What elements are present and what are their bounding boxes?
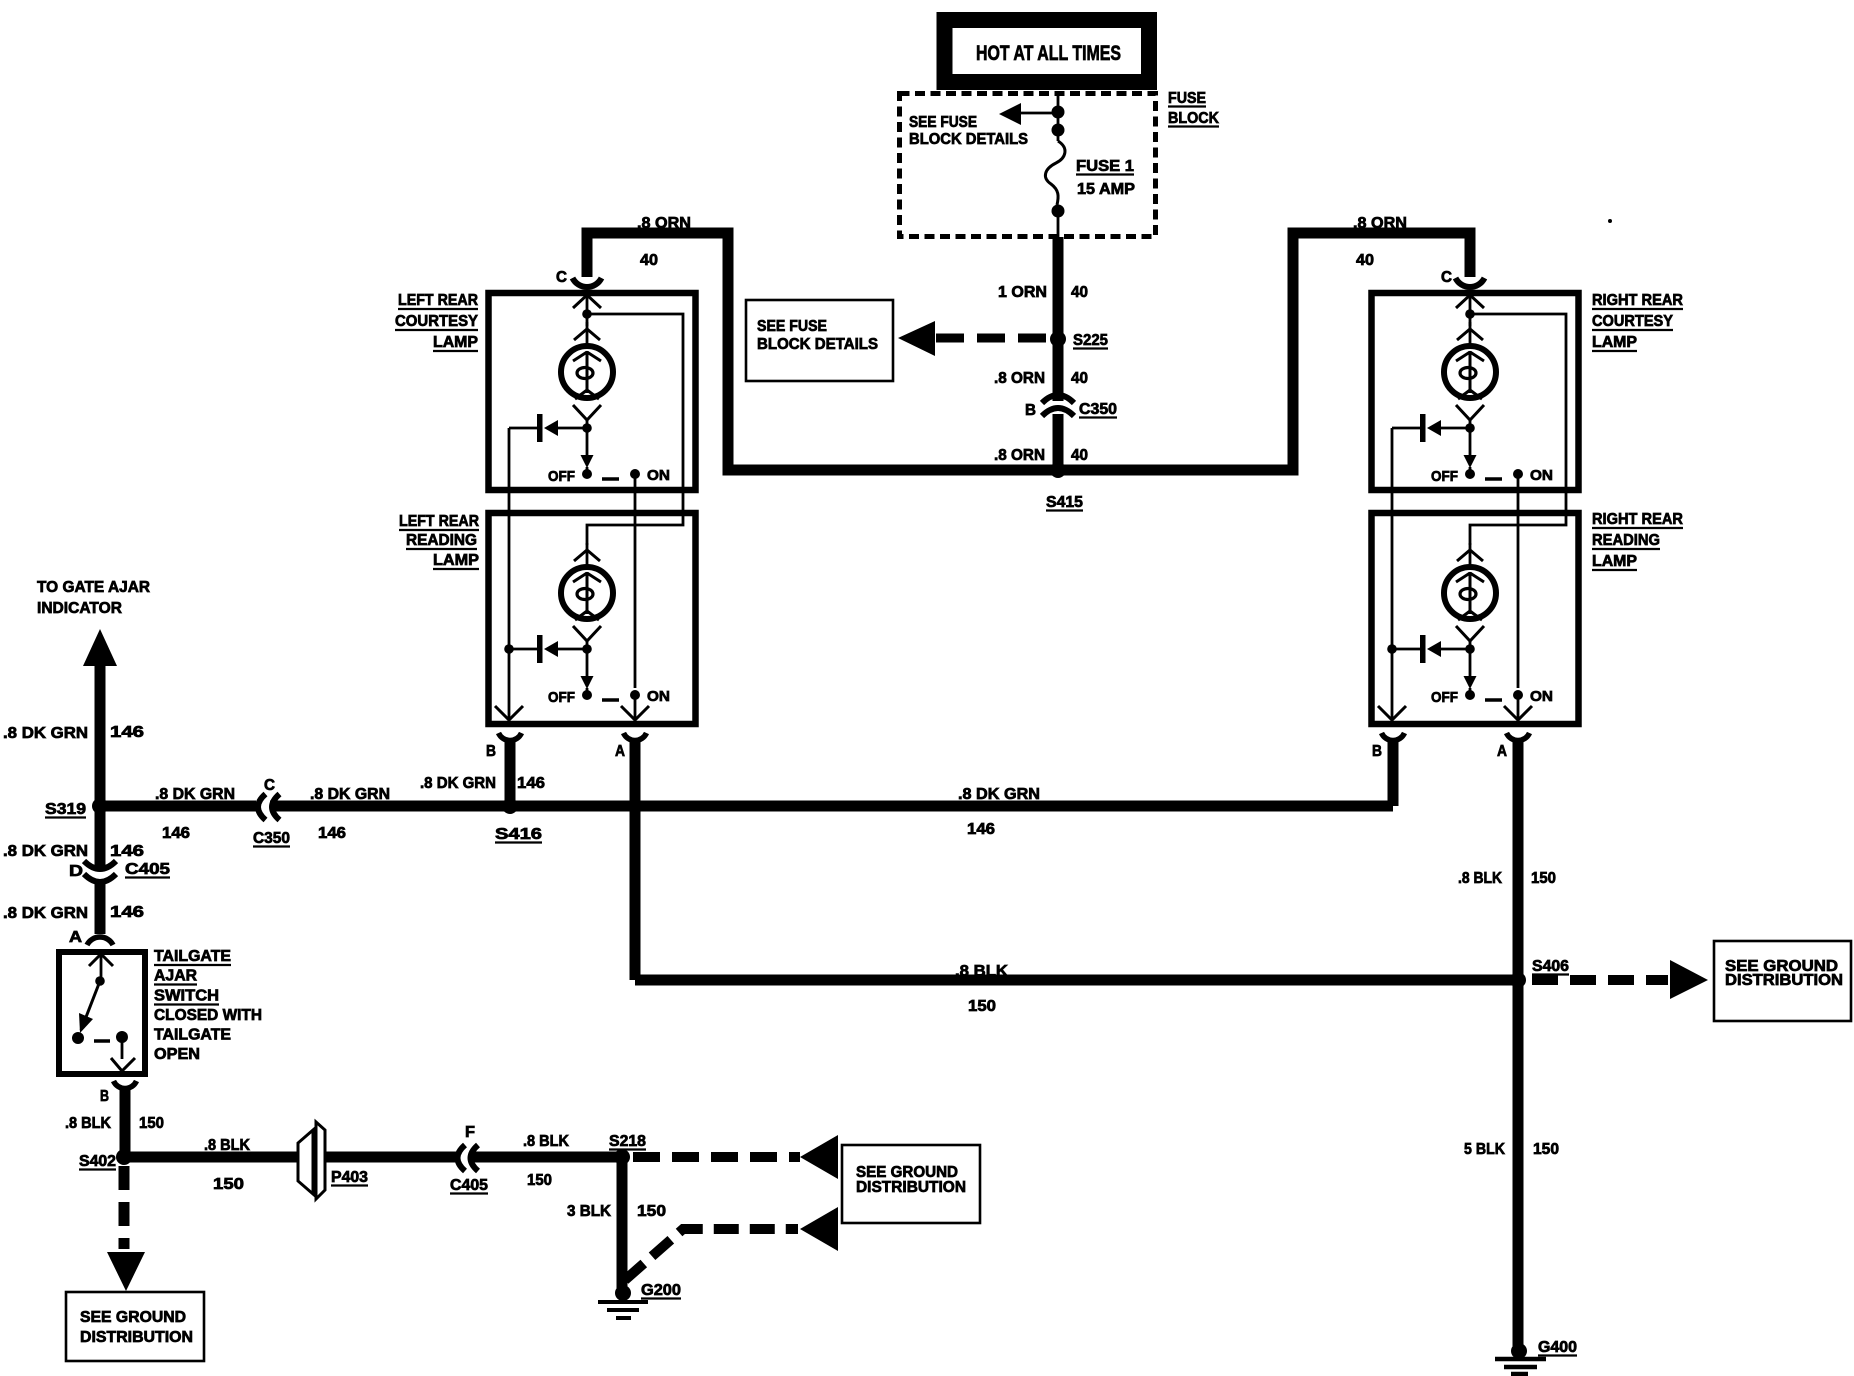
svg-text:COURTESY: COURTESY (395, 313, 478, 330)
svg-text:146: 146 (162, 825, 190, 842)
svg-text:D: D (69, 863, 83, 880)
switch position labels (548, 467, 670, 485)
svg-text:40: 40 (1071, 284, 1088, 301)
courtesy lamp case (1372, 293, 1579, 490)
connector pin A below reading lamp (624, 733, 647, 740)
connector pin B below reading lamp (1382, 733, 1405, 740)
svg-text:COURTESY: COURTESY (1592, 313, 1673, 330)
connector C350 cavity B (inline, vertical) (1042, 395, 1074, 403)
svg-text:SEE FUSE: SEE FUSE (909, 114, 977, 131)
node in courtesy lamp (582, 309, 592, 319)
tailgate switch pin arrow (89, 954, 113, 966)
svg-text:S402: S402 (79, 1153, 116, 1170)
svg-text:S415: S415 (1046, 494, 1083, 511)
svg-text:146: 146 (110, 904, 144, 921)
svg-text:150: 150 (1533, 1141, 1559, 1158)
svg-text:TAILGATE: TAILGATE (154, 948, 231, 965)
connector C at courtesy lamp (573, 278, 602, 287)
node in courtesy lamp (1465, 309, 1475, 319)
wire: A pin down to black run (630, 741, 641, 980)
tailgate switch blade (81, 981, 100, 1030)
svg-text:ON: ON (1530, 467, 1553, 484)
courtesy lamp case (489, 293, 696, 490)
svg-text:150: 150 (527, 1172, 552, 1189)
svg-text:.8 DK GRN: .8 DK GRN (310, 786, 390, 803)
wire diode return (1391, 428, 1394, 720)
wire: right A pin down to G400 (1513, 741, 1524, 1346)
wire OFF/ON to reading lamp (1517, 478, 1520, 688)
right courtesy + reading lamp assembly (1372, 278, 1579, 740)
svg-text:LAMP: LAMP (1592, 553, 1637, 570)
svg-text:.8 DK GRN: .8 DK GRN (3, 843, 88, 860)
wire: .8 ORN to left courtesy lamp (587, 233, 1058, 470)
arrow up to gate ajar indicator (83, 629, 117, 666)
arrow to see ground distribution (right) (1670, 960, 1708, 999)
wire branch to reading lamp (1470, 314, 1566, 545)
wire OFF/ON to reading lamp (634, 478, 637, 688)
svg-text:READING: READING (406, 532, 477, 549)
svg-text:INDICATOR: INDICATOR (37, 600, 122, 617)
svg-text:A: A (69, 929, 82, 946)
tailgate switch pivot node (95, 976, 105, 986)
wire: right B pin to green run end (1388, 741, 1399, 806)
svg-text:P403: P403 (331, 1169, 368, 1186)
svg-text:146: 146 (110, 724, 144, 741)
dashed wire S402 to ground distribution (119, 1166, 130, 1249)
svg-text:OFF: OFF (548, 689, 575, 706)
wire: .8 BLK 150 horizontal run (635, 975, 1518, 986)
svg-text:.8 ORN: .8 ORN (1353, 215, 1407, 232)
wire: 1 ORN 40 vertical feed (1053, 237, 1064, 401)
svg-text:C405: C405 (125, 861, 170, 878)
svg-text:RIGHT REAR: RIGHT REAR (1592, 511, 1683, 528)
svg-text:ON: ON (1530, 688, 1553, 705)
wire: 3 BLK 150 S218 to G200 (617, 1157, 628, 1288)
svg-text:C350: C350 (1079, 401, 1117, 418)
wire: B pin to S416 (505, 741, 516, 806)
svg-text:BLOCK DETAILS: BLOCK DETAILS (757, 336, 878, 353)
svg-text:HOT AT ALL TIMES: HOT AT ALL TIMES (976, 42, 1121, 65)
svg-text:C: C (264, 777, 275, 794)
svg-text:150: 150 (139, 1115, 164, 1132)
courtesy bulb and switch (509, 322, 640, 479)
svg-text:B: B (100, 1088, 109, 1105)
svg-text:.8 DK GRN: .8 DK GRN (3, 905, 88, 922)
svg-text:C: C (556, 269, 567, 286)
svg-text:SEE GROUND: SEE GROUND (80, 1309, 186, 1326)
svg-text:FUSE 1: FUSE 1 (1076, 158, 1134, 175)
fuse block dashed box (900, 94, 1156, 237)
svg-text:146: 146 (318, 825, 346, 842)
courtesy lamp feed pin arrow (573, 295, 601, 308)
dashed wire S406 to ground distribution (1532, 975, 1668, 985)
connector C405 cavity F (inline, horizontal) (458, 1145, 466, 1171)
wire: S319 down to C405 (95, 806, 106, 871)
tailgate ajar switch box (59, 952, 145, 1074)
svg-text:FUSE: FUSE (1168, 90, 1206, 107)
svg-text:C405: C405 (450, 1177, 488, 1194)
svg-text:TAILGATE: TAILGATE (154, 1027, 231, 1044)
svg-text:.8 BLK: .8 BLK (955, 963, 1008, 980)
svg-text:40: 40 (1071, 370, 1088, 387)
svg-text:G200: G200 (641, 1282, 681, 1299)
see ground distribution box (left) (66, 1292, 204, 1361)
splice S415 (1050, 462, 1066, 478)
svg-text:C: C (1441, 269, 1452, 286)
svg-text:150: 150 (1531, 870, 1556, 887)
node diode return reading (1387, 644, 1397, 654)
svg-text:150: 150 (637, 1203, 666, 1220)
svg-text:LAMP: LAMP (1592, 334, 1637, 351)
svg-text:1 ORN: 1 ORN (998, 284, 1047, 301)
svg-text:150: 150 (968, 998, 996, 1015)
svg-text:LAMP: LAMP (433, 552, 479, 569)
connector pin B below reading lamp (499, 733, 522, 740)
svg-text:146: 146 (110, 843, 144, 860)
courtesy bulb and switch (1392, 322, 1523, 479)
left courtesy + reading lamp assembly (489, 278, 696, 740)
svg-text:A: A (615, 743, 625, 760)
courtesy lamp feed pin arrow (1456, 295, 1484, 308)
wire: .8 BLK 150 to S402 (120, 1089, 131, 1152)
see fuse block details box (746, 300, 893, 381)
svg-text:AJAR: AJAR (154, 968, 197, 985)
node: feed junction dots (1052, 106, 1065, 119)
svg-text:CLOSED WITH: CLOSED WITH (154, 1007, 262, 1024)
svg-text:C350: C350 (253, 830, 290, 847)
svg-text:40: 40 (1071, 447, 1088, 464)
connector C at courtesy lamp (1456, 278, 1485, 287)
arrow to see ground distribution (lower) (800, 1207, 838, 1251)
grommet P403 (298, 1130, 313, 1194)
svg-text:.8 DK GRN: .8 DK GRN (3, 725, 88, 742)
svg-text:.8 ORN: .8 ORN (994, 370, 1045, 387)
svg-text:40: 40 (1356, 252, 1374, 269)
arrow down to see ground distribution (107, 1252, 145, 1291)
svg-text:DISTRIBUTION: DISTRIBUTION (80, 1329, 193, 1346)
svg-text:.8 ORN: .8 ORN (994, 447, 1045, 464)
speck (1608, 219, 1612, 223)
svg-text:S319: S319 (45, 801, 86, 818)
reading lamp case (489, 513, 696, 724)
connector C350 cavity C (inline, horizontal) (258, 794, 266, 820)
svg-text:.8 ORN: .8 ORN (637, 215, 691, 232)
svg-text:LAMP: LAMP (433, 334, 478, 351)
svg-text:S218: S218 (609, 1133, 646, 1150)
splice S225 (1050, 331, 1066, 347)
svg-text:3 BLK: 3 BLK (567, 1203, 611, 1220)
svg-text:40: 40 (640, 252, 658, 269)
pin arrows at reading lamp bottom (1378, 706, 1406, 720)
dashed wire to see fuse block details (936, 334, 1046, 343)
svg-text:B: B (486, 743, 496, 760)
wire in fuse block (1057, 96, 1060, 141)
switch position labels (1431, 467, 1553, 485)
svg-text:S225: S225 (1073, 332, 1108, 349)
tailgate switch contact (94, 1039, 110, 1043)
svg-text:SEE FUSE: SEE FUSE (757, 318, 827, 335)
ground G400 (1511, 1343, 1527, 1359)
reading bulb and switch (1392, 543, 1523, 700)
svg-text:15 AMP: 15 AMP (1077, 181, 1135, 198)
svg-text:B: B (1372, 743, 1382, 760)
see ground distribution box (middle) (842, 1145, 980, 1223)
power feed box HOT AT ALL TIMES (945, 20, 1150, 82)
svg-text:.8 BLK: .8 BLK (65, 1115, 111, 1132)
svg-text:ON: ON (647, 688, 670, 705)
wire: .8 DK GRN 146 up from S319 (95, 660, 106, 806)
svg-text:LEFT REAR: LEFT REAR (398, 292, 478, 309)
svg-text:150: 150 (213, 1176, 244, 1193)
arrow to see fuse block details box (898, 321, 935, 356)
switch position labels (548, 688, 670, 706)
wire branch to reading lamp (587, 314, 683, 545)
splice S319 (92, 798, 108, 814)
node diode return reading (504, 644, 514, 654)
svg-text:G400: G400 (1538, 1339, 1577, 1356)
wire: C405 to tailgate switch (95, 884, 106, 934)
svg-text:DISTRIBUTION: DISTRIBUTION (856, 1179, 966, 1196)
wire: .8 DK GRN 146 horizontal run (100, 801, 256, 812)
svg-text:BLOCK: BLOCK (1168, 110, 1219, 127)
svg-text:146: 146 (967, 821, 995, 838)
splice S416 (502, 798, 518, 814)
wire diode return (508, 428, 511, 720)
switch position labels (1431, 688, 1553, 706)
svg-text:F: F (465, 1124, 475, 1141)
node below fuse (1052, 205, 1065, 218)
splice S402 (116, 1149, 132, 1165)
svg-text:SWITCH: SWITCH (154, 988, 219, 1005)
reading lamp case (1372, 513, 1579, 724)
ground G200 (615, 1285, 631, 1301)
svg-text:5 BLK: 5 BLK (1464, 1141, 1505, 1158)
fuse F1 element (1045, 141, 1065, 205)
svg-text:.8 DK GRN: .8 DK GRN (155, 786, 235, 803)
svg-text:LEFT REAR: LEFT REAR (399, 513, 479, 530)
svg-text:OFF: OFF (548, 468, 575, 485)
svg-text:OFF: OFF (1431, 468, 1458, 485)
splice S406 (1510, 972, 1526, 988)
splice S218 (614, 1149, 630, 1165)
svg-text:OFF: OFF (1431, 689, 1458, 706)
wire: .8 ORN to right courtesy lamp (1058, 233, 1470, 470)
svg-text:READING: READING (1592, 532, 1660, 549)
svg-text:S406: S406 (1532, 958, 1569, 975)
wire: .8 BLK 150 S402 to S218 (124, 1152, 297, 1163)
svg-text:.8 BLK: .8 BLK (204, 1137, 250, 1154)
reading bulb and switch (509, 543, 640, 700)
pin arrows at reading lamp bottom (495, 706, 523, 720)
svg-text:ON: ON (647, 467, 670, 484)
svg-text:.8 BLK: .8 BLK (1458, 870, 1502, 887)
svg-text:TO GATE AJAR: TO GATE AJAR (37, 579, 150, 596)
svg-text:.8 DK GRN: .8 DK GRN (958, 786, 1040, 803)
connector pin A below reading lamp (1507, 733, 1530, 740)
svg-text:B: B (1025, 402, 1036, 419)
arrow to see ground distribution (upper) (800, 1135, 838, 1179)
svg-text:RIGHT REAR: RIGHT REAR (1592, 292, 1683, 309)
arrow to fuse block details (top) (999, 103, 1021, 125)
svg-text:DISTRIBUTION: DISTRIBUTION (1725, 972, 1843, 989)
svg-text:.8 BLK: .8 BLK (523, 1133, 569, 1150)
svg-text:OPEN: OPEN (154, 1046, 200, 1063)
dashed wire S218 to ground distribution (633, 1152, 800, 1162)
svg-text:A: A (1497, 743, 1507, 760)
see ground distribution box (right) (1714, 941, 1851, 1021)
svg-text:BLOCK DETAILS: BLOCK DETAILS (909, 131, 1028, 148)
svg-text:S416: S416 (495, 826, 542, 843)
svg-text:.8 DK GRN: .8 DK GRN (420, 775, 496, 792)
svg-text:146: 146 (517, 775, 545, 792)
connector C405 cavity D (inline, vertical) (84, 861, 116, 869)
dashed wire G200 branch to ground distribution (625, 1229, 798, 1280)
